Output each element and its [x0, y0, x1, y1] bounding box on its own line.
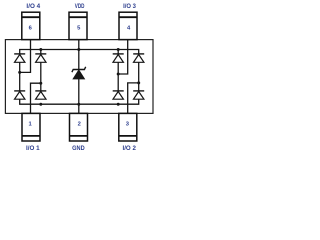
junction dot top rail C3	[117, 48, 120, 51]
zener diode ZD center	[72, 50, 86, 105]
svg-text:VDD: VDD	[75, 4, 85, 10]
pin 2 box	[70, 113, 88, 141]
pin 1 box	[22, 113, 40, 141]
wire GND stub pin2	[78, 104, 80, 113]
junction dot node D	[137, 81, 140, 84]
GND bottom rail	[20, 99, 139, 104]
diode D2 upper-left-inner	[35, 54, 46, 62]
diode D8 lower-right-outer	[133, 91, 144, 99]
wire column C4 mid	[138, 62, 140, 91]
diode D1 upper-left-outer	[14, 54, 25, 62]
junction dot node C	[117, 73, 120, 76]
wire pin6 to node A	[20, 40, 31, 73]
pin 2 bottom bar	[70, 135, 88, 137]
diode D4 upper-right-outer	[133, 54, 144, 62]
wire pin4 to node C	[118, 40, 128, 74]
IC body outline	[5, 40, 153, 114]
pin 1 bottom bar	[22, 135, 40, 137]
svg-text:I/O 4: I/O 4	[26, 4, 40, 10]
pin 5 box	[69, 12, 87, 39]
wire pin1 to node B	[31, 83, 41, 113]
pin 4 box	[119, 12, 137, 39]
wire column C3 mid	[117, 62, 119, 91]
pin 3 bottom bar	[119, 135, 137, 137]
pin 3 box	[119, 113, 137, 141]
junction dot top rail C2	[39, 48, 42, 51]
pin 6 top bar	[22, 16, 40, 18]
svg-text:GND: GND	[72, 146, 85, 152]
pin 5 top bar	[69, 16, 87, 18]
junction dot bottom rail C2	[39, 103, 42, 106]
diode D5 lower-left-outer	[14, 91, 25, 99]
wire column C2 mid	[40, 62, 42, 91]
wire column C3 top stub	[117, 50, 119, 55]
svg-text:I/O 2: I/O 2	[123, 146, 137, 152]
junction dot node A	[18, 71, 21, 74]
svg-text:I/O 3: I/O 3	[123, 4, 136, 10]
pin 6 box	[22, 12, 40, 39]
junction dot node B	[39, 82, 42, 85]
wire column C1 mid	[19, 62, 21, 91]
pin 4 top bar	[119, 16, 137, 18]
junction dot top rail VDD	[77, 48, 80, 51]
wire column C2 top stub	[40, 50, 42, 55]
VDD top rail	[20, 50, 139, 55]
svg-text:I/O 1: I/O 1	[26, 146, 40, 152]
wire pin3 to node D	[128, 83, 139, 114]
diode D7 lower-right-inner	[113, 91, 124, 99]
diode D3 upper-right-inner	[113, 54, 124, 62]
junction dot bottom rail GND	[77, 103, 80, 106]
junction dot bottom rail C3	[117, 103, 120, 106]
wire VDD stub pin5	[78, 40, 80, 50]
diode D6 lower-left-inner	[35, 91, 46, 99]
svg-text:2: 2	[78, 122, 81, 128]
